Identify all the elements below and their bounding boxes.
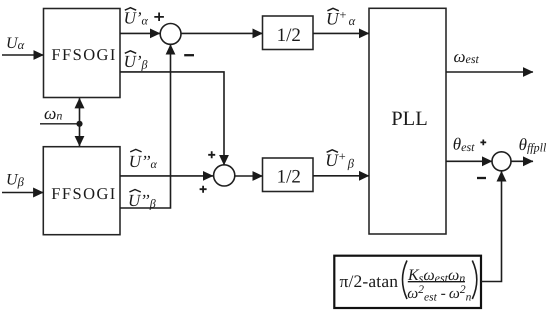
sign plus at S3 left input [480, 140, 486, 146]
block feedforward formula pi/2-atan(Ks*west*wn/(w2est-w2n)) [334, 256, 481, 308]
sign minus at S3 bottom input [477, 177, 486, 179]
svg-text:Uα: Uα [6, 35, 25, 52]
label U+_alpha with hat [326, 8, 356, 29]
label U''_alpha with hat [129, 149, 158, 170]
svg-text:PLL: PLL [391, 108, 427, 130]
sign minus at S1 bottom input [184, 54, 194, 56]
wire input U_beta arrow [2, 192, 43, 194]
summing junction S3 (theta output) [492, 152, 511, 171]
junction dot omega_n node [76, 121, 82, 127]
wire S2 output to 1/2 block [235, 175, 263, 177]
wire U''_beta from FFSOGI2 up to S1 [120, 45, 171, 209]
summing junction S2 (beta) [214, 165, 235, 186]
wire U'_alpha from FFSOGI1 to S1 [120, 32, 160, 34]
sign plus at S2 top input [208, 151, 215, 158]
wire U'_beta from FFSOGI1 down to S2 [120, 72, 224, 165]
svg-text:π/2-atan: π/2-atan [340, 271, 399, 291]
wire omega_n input [40, 123, 80, 125]
wire input U_alpha arrow [2, 54, 44, 56]
block PLL [369, 8, 446, 234]
wire S3 output theta_ffpll arrow [511, 160, 533, 162]
wire S1 output to 1/2 block [181, 32, 263, 34]
wire omega_est output arrow [446, 71, 533, 73]
block 1/2 gain (beta) [263, 158, 314, 192]
wire U''_alpha from FFSOGI2 to S2 [120, 175, 213, 177]
label U''_beta with hat [128, 190, 156, 211]
sign plus at S1 left input [154, 13, 164, 22]
wire theta_est from PLL to S3 [446, 160, 492, 162]
svg-text:1/2: 1/2 [277, 25, 301, 46]
wire U+_alpha from 1/2 to PLL [313, 32, 369, 34]
wire omega_n double arrow to both FFSOGI blocks [79, 98, 81, 146]
label U'_beta with hat [124, 51, 148, 72]
block FFSOGI U1 (alpha channel) [44, 9, 121, 98]
svg-text:1/2: 1/2 [277, 166, 301, 187]
block FFSOGI U2 (beta channel) [43, 147, 120, 235]
wire U+_beta from 1/2 to PLL [313, 175, 369, 177]
label U'_alpha with hat [124, 8, 149, 28]
label U+_beta with hat [325, 149, 355, 170]
svg-text:Uβ: Uβ [6, 171, 25, 189]
sign plus at S2 left input [200, 186, 207, 193]
summing junction S1 (alpha) [160, 24, 181, 45]
block 1/2 gain (alpha) [263, 16, 314, 50]
wire formula output up to S3 [481, 171, 502, 281]
